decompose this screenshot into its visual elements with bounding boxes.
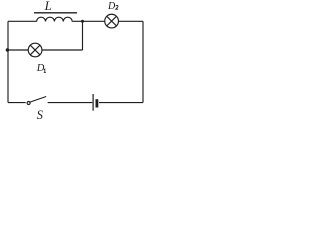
battery: long thin plate: [92, 94, 94, 111]
node junction dot on left rail: [6, 48, 9, 51]
wire: top left segment: [8, 20, 37, 22]
wire: coil to lamp D2: [72, 20, 105, 22]
lamp D2: [105, 14, 119, 28]
wire: lamp D1 right to riser: [42, 49, 83, 51]
switch S blade: [30, 97, 46, 103]
battery: short thick plate: [96, 99, 99, 107]
lamp D1: [28, 43, 42, 57]
inductor L coil: [37, 17, 73, 21]
wire: battery to switch: [48, 102, 93, 104]
wire: right rail: [142, 21, 144, 102]
node junction dot: [81, 20, 84, 23]
wire: left rail to lamp D1: [8, 49, 28, 51]
wire: left rail: [7, 21, 9, 102]
svg-text:L: L: [44, 0, 52, 13]
svg-text:S: S: [37, 108, 44, 120]
wire: bottom right to battery: [99, 102, 143, 104]
wire: riser up to junction: [82, 21, 84, 50]
wire: left corner to switch: [8, 102, 26, 104]
inductor core line: [34, 12, 77, 14]
svg-text:D: D: [107, 1, 116, 12]
wire: lamp D2 to top right corner: [119, 20, 144, 22]
svg-text:D: D: [36, 63, 45, 74]
switch S pivot circle: [27, 102, 30, 105]
